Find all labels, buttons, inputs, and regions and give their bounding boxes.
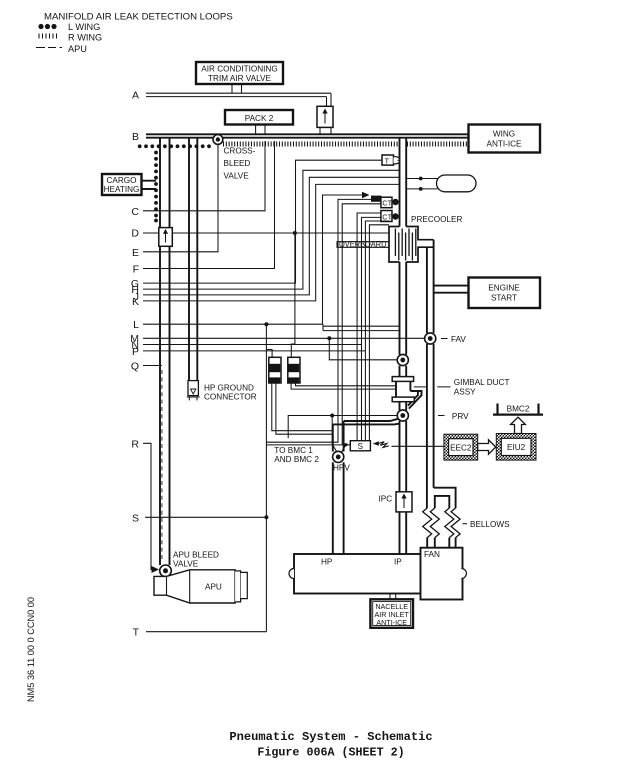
svg-text:FAN: FAN xyxy=(424,550,440,559)
APU xyxy=(154,570,247,603)
svg-text:L WING: L WING xyxy=(68,22,100,32)
wire S box to EEC2 xyxy=(392,445,444,447)
HP ground duct from B xyxy=(189,139,197,381)
svg-text:PRECOOLER: PRECOOLER xyxy=(411,215,462,224)
svg-text:E: E xyxy=(132,247,139,259)
node M / wire M to FAV valve, branch to bleed valve xyxy=(130,333,424,360)
svg-text:IPC: IPC xyxy=(379,495,393,504)
svg-text:R: R xyxy=(131,438,139,450)
svg-text:VALVE: VALVE xyxy=(224,172,250,181)
node T / wire T xyxy=(133,627,267,639)
CT sensor 1 xyxy=(381,197,399,208)
svg-text:APU BLEED: APU BLEED xyxy=(173,551,219,560)
precooler xyxy=(389,215,462,262)
svg-text:MANIFOLD AIR LEAK DETECTION LO: MANIFOLD AIR LEAK DETECTION LOOPS xyxy=(44,12,233,23)
node H / wire H to duct xyxy=(131,170,399,296)
label: CROSS-BLEED VALVE xyxy=(224,147,256,181)
svg-text:B: B xyxy=(132,131,139,143)
HP ground connector xyxy=(187,381,257,402)
svg-text:C: C xyxy=(131,206,139,218)
svg-text:S: S xyxy=(358,442,364,451)
node G / wire G to temperature sensor T xyxy=(131,160,382,290)
svg-text:PACK 2: PACK 2 xyxy=(245,114,274,123)
svg-text:EIU2: EIU2 xyxy=(507,443,526,452)
box: CARGO HEATING xyxy=(102,174,156,195)
svg-text:PRV: PRV xyxy=(452,412,469,421)
pipe to main duct at L level xyxy=(323,324,400,330)
svg-text:AND BMC 2: AND BMC 2 xyxy=(274,455,319,464)
label TO BMC 1 AND BMC 2 xyxy=(274,446,319,464)
svg-text:P: P xyxy=(132,346,139,358)
svg-text:ENGINE: ENGINE xyxy=(488,284,520,293)
APU leak detection dashed loop xyxy=(161,370,163,560)
wire R2 bottom pair to gimbal duct xyxy=(291,383,396,389)
main bleed duct down from B xyxy=(400,139,407,555)
svg-text:T: T xyxy=(133,627,140,639)
box: NACELLE AIR INLET ANTI-ICE xyxy=(370,594,413,628)
CT sense wire bundle down to BMC interface xyxy=(266,199,389,445)
node A xyxy=(132,90,331,102)
svg-text:CT: CT xyxy=(382,212,392,221)
wing anti-ice probe capsule xyxy=(406,175,476,192)
box: ENGINE START xyxy=(469,278,541,309)
block arrow EEC2 to EIU2 xyxy=(478,440,496,454)
fan air valve (valve above gimbal on main duct) xyxy=(397,354,408,365)
svg-text:WING: WING xyxy=(493,130,515,139)
bellows 1 xyxy=(423,508,440,538)
hatched sensor box before CT1 xyxy=(372,196,381,201)
svg-text:ANTI-ICE: ANTI-ICE xyxy=(486,140,522,149)
svg-text:BMC2: BMC2 xyxy=(507,405,530,414)
R-wing tick marks under line B xyxy=(224,142,467,147)
svg-text:ASSY: ASSY xyxy=(454,388,476,397)
APU bleed valve xyxy=(160,551,219,577)
svg-text:GIMBAL DUCT: GIMBAL DUCT xyxy=(454,378,510,387)
wire HPV to solenoid S xyxy=(341,443,350,453)
node S / wire S xyxy=(132,512,268,524)
box: AIR CONDITIONING TRIM AIR VALVE xyxy=(196,62,283,93)
FAV valve xyxy=(425,333,467,344)
node D / wire D to restrictor R2 and precooler xyxy=(131,228,388,358)
svg-text:Q: Q xyxy=(131,361,139,373)
svg-text:NM5 36 11 00 0 CCN0 00: NM5 36 11 00 0 CCN0 00 xyxy=(26,597,36,702)
node J / wire J to duct xyxy=(134,177,400,303)
computer EEC2 xyxy=(444,434,478,460)
svg-text:T: T xyxy=(385,156,390,165)
svg-text:HP: HP xyxy=(321,558,333,567)
valve V1 on pack supply (box with up arrow) xyxy=(317,93,333,134)
box: WING ANTI-ICE xyxy=(469,125,541,153)
engine HP/IP casing xyxy=(289,554,421,594)
wire PRV to solenoid S xyxy=(288,414,397,452)
svg-text:S: S xyxy=(132,512,139,524)
svg-text:K: K xyxy=(132,296,139,308)
L-wing dot column xyxy=(154,151,158,223)
svg-text:OVERBOARD: OVERBOARD xyxy=(339,239,387,249)
IPC valve (box with up arrow) xyxy=(379,492,413,512)
wire R1 bottom pair to HP duct xyxy=(272,383,333,434)
svg-text:BELLOWS: BELLOWS xyxy=(470,520,510,529)
svg-text:FAV: FAV xyxy=(451,335,466,344)
HP bleed branch from PRV to HPV xyxy=(333,419,400,554)
svg-text:HEATING: HEATING xyxy=(104,185,140,194)
solenoid box S xyxy=(350,441,370,451)
CT sensor 2 xyxy=(381,211,399,222)
node C / wire C to crossbleed label box xyxy=(131,141,265,218)
svg-text:A: A xyxy=(132,90,139,102)
engine start supply duct (right duct) xyxy=(427,240,434,508)
HPV valve xyxy=(333,451,351,472)
node P / wire P xyxy=(132,346,365,358)
bellows 2 xyxy=(445,508,460,538)
node K / wire K to duct xyxy=(132,184,400,308)
CAPTION xyxy=(229,730,432,760)
node Q / wire Q to APU duct xyxy=(131,361,162,373)
svg-text:IP: IP xyxy=(394,558,402,567)
svg-text:APU: APU xyxy=(205,583,222,592)
valve V2 on APU duct (box with up arrow) xyxy=(159,228,173,247)
block arrow EIU2 to BMC2 xyxy=(511,417,526,433)
svg-text:L: L xyxy=(133,319,139,331)
APU supply duct from B xyxy=(160,139,170,566)
restrictor R2 xyxy=(288,357,300,383)
engine fan casing xyxy=(421,548,467,600)
svg-text:CONNECTOR: CONNECTOR xyxy=(204,393,257,402)
svg-text:CT: CT xyxy=(382,199,392,208)
engine start branch xyxy=(434,286,469,293)
svg-text:D: D xyxy=(131,228,139,240)
OVERBOARD vent duct xyxy=(337,239,389,249)
crossbleed valve xyxy=(213,135,223,145)
BMC2 xyxy=(493,404,543,415)
svg-text:CROSS-: CROSS- xyxy=(224,147,256,156)
svg-text:VALVE: VALVE xyxy=(173,560,199,569)
svg-text:R WING: R WING xyxy=(68,33,102,43)
svg-text:Figure 006A (SHEET 2): Figure 006A (SHEET 2) xyxy=(257,746,404,760)
computer EIU2 xyxy=(496,434,536,461)
lightning arrow into S xyxy=(373,441,389,447)
node B xyxy=(132,131,468,143)
svg-text:F: F xyxy=(133,264,139,276)
svg-text:EEC2: EEC2 xyxy=(450,443,472,452)
temperature sensor T xyxy=(382,155,400,165)
svg-text:CARGO: CARGO xyxy=(106,176,136,185)
svg-text:AIR CONDITIONING: AIR CONDITIONING xyxy=(201,65,277,74)
PRV valve xyxy=(397,410,469,421)
gimbal duct assy xyxy=(392,377,509,409)
restrictor R1 xyxy=(269,357,281,383)
node R / wire R to APU bleed valve with arrow xyxy=(131,438,159,573)
node L / wire L to CT1 with arrow, branch to restrictor R1 xyxy=(133,192,369,632)
svg-text:APU: APU xyxy=(68,44,87,54)
box: PACK 2 xyxy=(225,110,293,134)
LEGEND xyxy=(36,12,233,55)
svg-text:HPV: HPV xyxy=(333,464,350,473)
svg-text:ANTI-ICE: ANTI-ICE xyxy=(376,618,407,627)
svg-text:TO BMC 1: TO BMC 1 xyxy=(274,446,313,455)
svg-text:START: START xyxy=(491,294,517,303)
node E / wire E to crossbleed valve xyxy=(132,145,218,259)
svg-text:HP GROUND: HP GROUND xyxy=(204,384,254,393)
svg-text:TRIM AIR VALVE: TRIM AIR VALVE xyxy=(208,74,271,83)
bellows supply split xyxy=(434,488,456,508)
label BELLOWS xyxy=(463,520,511,529)
node N / wire N xyxy=(131,340,361,352)
svg-text:Pneumatic System - Schematic: Pneumatic System - Schematic xyxy=(229,730,432,744)
node F / wire F xyxy=(133,141,275,276)
L-wing dot row under line B xyxy=(138,144,211,148)
svg-text:BLEED: BLEED xyxy=(224,159,251,168)
